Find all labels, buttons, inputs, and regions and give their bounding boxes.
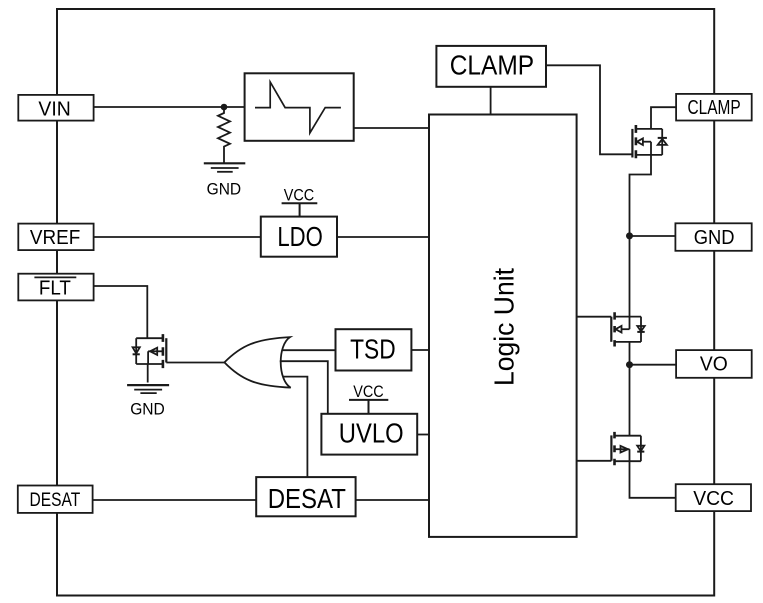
wire VO node to Q4 drain [629,365,631,436]
svg-text:Logic Unit: Logic Unit [489,268,520,386]
block LDO [261,217,337,257]
svg-text:VIN: VIN [38,98,70,120]
transistor Q3 (upper output MOSFET with body diode) [577,312,645,346]
wire CLAMP block to Q2 gate [546,65,632,154]
wire or-gate input 3 to DESAT [283,377,307,478]
pin FLT (active low) [18,274,93,301]
wire LDO to Logic Unit [337,236,429,238]
wire GND node to Q3 [629,236,631,329]
block CLAMP [436,46,546,87]
block TSD [336,329,412,370]
wire or-gate input 1 to TSD [282,349,336,351]
svg-text:CLAMP: CLAMP [688,97,741,119]
wire DESAT pin to DESAT block [93,499,257,501]
wire Q3 source to VO node [629,342,631,365]
svg-text:GND: GND [130,399,165,418]
wire CLAMP block to Logic Unit top [490,87,492,115]
wire DESAT block to Logic Unit [355,499,429,501]
pin GND [675,223,751,251]
or-gate (3-input, output to left) [224,337,290,388]
wire UVLO to Logic Unit [417,434,429,436]
VCC supply symbol (above LDO) [282,186,318,217]
wire FLT to Q1 drain [94,286,148,338]
svg-text:GND: GND [207,180,242,199]
wire or-gate input 2 to UVLO [280,361,328,414]
node GND junction [626,232,633,239]
wire VIN to input block [94,106,245,108]
block DESAT [256,477,355,516]
wire Q2 drain to CLAMP pin [651,107,676,129]
wire VO node to VO pin [630,364,677,366]
pin VIN [18,95,93,121]
wire TSD to Logic Unit [410,349,429,351]
svg-text:VCC: VCC [693,488,734,510]
ground (below Q1) [127,385,169,393]
pin VCC [676,484,751,511]
svg-text:VCC: VCC [353,382,384,401]
transistor Q2 (clamp MOSFET with body diode) [632,125,667,158]
VCC supply symbol (above UVLO) [349,382,388,414]
block UVLO [321,414,417,455]
pin VREF [18,224,93,251]
pin CLAMP [676,94,752,121]
ground (below resistor) [204,163,246,172]
node VO junction [626,361,633,368]
transistor Q4 (lower output MOSFET with body diode) [577,432,645,465]
svg-text:TSD: TSD [350,334,396,365]
svg-text:VCC: VCC [284,186,315,205]
resistor (pull-down on VIN) [218,107,230,163]
svg-text:VO: VO [700,354,728,376]
block Logic Unit [429,115,577,537]
transistor Q1 (FLT pull-down MOSFET with body diode) [133,334,225,382]
node junction on VIN wire [221,104,228,111]
svg-text:GND: GND [694,227,735,249]
svg-text:DESAT: DESAT [30,490,81,511]
wire Q4 source to VCC pin [630,449,676,498]
wire GND node to GND pin [630,235,676,237]
svg-text:FLT: FLT [39,278,71,300]
svg-text:VREF: VREF [30,227,80,249]
input pulse shaper block [245,73,354,141]
wire VREF to LDO [94,236,261,238]
svg-text:CLAMP: CLAMP [450,49,534,80]
svg-text:DESAT: DESAT [268,483,346,514]
wire Q2 source to GND node [630,142,652,236]
pin DESAT [18,486,93,513]
svg-text:LDO: LDO [277,221,323,252]
svg-text:UVLO: UVLO [339,418,404,449]
pin VO [676,350,752,378]
wire input block to Logic Unit [354,127,429,129]
